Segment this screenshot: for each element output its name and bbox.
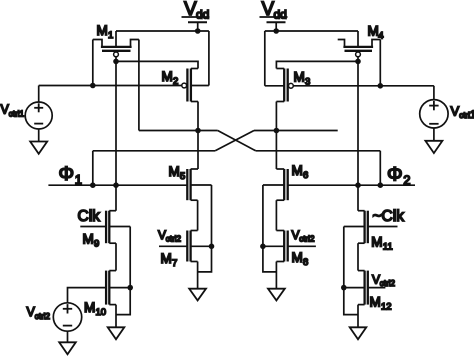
svg-text:10: 10 xyxy=(96,307,107,318)
wire Vctrl2 to M7 gate xyxy=(159,245,187,247)
transistor M10 xyxy=(84,271,130,318)
wire M8 source down xyxy=(275,262,277,289)
wire ~Clk to M11 gate xyxy=(368,226,398,228)
supply Vdd left xyxy=(182,0,210,31)
voltage source Vctrl1 left xyxy=(1,86,53,142)
wire M6/M8 body tie vertical xyxy=(263,185,277,272)
wire top-left coupling line xyxy=(139,130,218,132)
svg-text:M: M xyxy=(370,294,381,309)
junction dot M7 body xyxy=(209,244,215,250)
wire M7 source down xyxy=(197,262,199,289)
junction dot M2 drain on coupling line xyxy=(195,128,201,134)
ground under Vctrl1 right xyxy=(425,141,442,153)
svg-text:M: M xyxy=(292,250,303,265)
junction dot Phi1 coupling corner xyxy=(90,182,96,188)
svg-text:1: 1 xyxy=(108,30,113,41)
svg-text:M: M xyxy=(371,235,382,250)
svg-text:6: 6 xyxy=(303,170,308,181)
svg-text:M: M xyxy=(368,23,379,38)
wire M2 body to Vdd rail xyxy=(208,31,210,86)
ground under Vctrl2 left xyxy=(59,342,76,354)
svg-text:ctrl2: ctrl2 xyxy=(299,234,315,243)
svg-text:ctrl1: ctrl1 xyxy=(9,110,25,119)
svg-text:8: 8 xyxy=(303,257,308,268)
bubble on M2 gate xyxy=(182,83,187,88)
junction dot Phi2 to M11 branch xyxy=(355,182,361,188)
transistor M1 xyxy=(93,23,139,51)
svg-text:M: M xyxy=(292,163,303,178)
transistor M8 xyxy=(263,231,308,269)
transistor M7 xyxy=(161,231,212,269)
label Vctrl2 at M8 gate xyxy=(292,228,315,244)
junction dot M10 body xyxy=(127,285,133,291)
svg-text:9: 9 xyxy=(94,238,99,249)
transistor M2 xyxy=(162,69,209,102)
label Vctrl2 at M12 gate xyxy=(372,272,395,288)
svg-text:~Clk: ~Clk xyxy=(373,208,405,225)
wire M4 right terminal xyxy=(379,40,381,86)
wire Vctrl2 source to M10 gate xyxy=(68,288,107,303)
wire top-right coupling line xyxy=(254,130,338,132)
transistor M6 xyxy=(263,163,308,200)
wire M5/M7 body tie vertical xyxy=(198,185,212,272)
ground under M10 xyxy=(108,327,125,339)
junction dot Vdd rail left xyxy=(195,28,201,34)
wire M4 gate vertical down to Phi2 and M11 xyxy=(357,57,359,211)
wire M5 source to M7 drain xyxy=(197,200,199,230)
junction dot Phi2 coupling corner xyxy=(378,182,384,188)
wire Vdd rail right xyxy=(265,30,358,32)
label Vctrl2 at M7 gate xyxy=(158,228,181,244)
voltage source Vctrl1 right xyxy=(420,86,474,141)
ground under Vctrl1 left xyxy=(30,142,47,154)
wire M1 left terminal xyxy=(92,40,94,86)
wire Vctrl1 to M2 gate xyxy=(39,85,182,87)
svg-text:dd: dd xyxy=(274,8,287,22)
wire Vdd rail left xyxy=(116,30,209,32)
junction dot M12 body xyxy=(341,285,347,291)
transistor M12 xyxy=(344,271,392,313)
svg-text:ctrl2: ctrl2 xyxy=(166,234,182,243)
node Phi1 xyxy=(48,163,187,187)
svg-text:1: 1 xyxy=(470,109,474,121)
wire M3 body to Vdd rail xyxy=(264,31,266,86)
bubble on M1 gate xyxy=(114,52,119,57)
junction dot M4 source node xyxy=(378,83,384,89)
bubble on M3 gate xyxy=(289,83,294,88)
svg-text:dd: dd xyxy=(196,8,209,22)
wire bottom-left coupling line xyxy=(93,150,215,152)
svg-text:ctrl: ctrl xyxy=(459,111,470,120)
wire Clk to M9 gate xyxy=(80,226,106,228)
junction dot Vdd rail right xyxy=(273,28,279,34)
svg-text:Φ: Φ xyxy=(59,163,75,185)
wire coupling diagonal down-right xyxy=(218,131,256,151)
transistor M9 xyxy=(83,211,131,250)
node Phi2 xyxy=(288,163,415,187)
transistor M11 xyxy=(344,211,393,253)
wire M12 source down xyxy=(357,305,359,328)
wire M12 gate to Vctrl2 xyxy=(368,287,386,289)
supply Vdd right xyxy=(260,0,288,31)
svg-text:M: M xyxy=(294,70,305,85)
transistor M5 xyxy=(169,164,212,200)
svg-text:M: M xyxy=(97,23,108,38)
wire M11 source to M12 drain xyxy=(357,243,359,270)
ground under M12 xyxy=(350,327,367,339)
svg-text:M: M xyxy=(84,300,95,315)
svg-text:7: 7 xyxy=(172,258,177,269)
svg-text:M: M xyxy=(161,251,172,266)
svg-text:M: M xyxy=(162,69,173,84)
wire M3 gate to Vctrl1 right xyxy=(293,85,434,87)
junction dot M8 body xyxy=(260,244,266,250)
wire coupling diagonal up-right xyxy=(215,131,254,151)
voltage source Vctrl2 left xyxy=(27,303,82,343)
wire coupling corner left down to Phi1 xyxy=(92,151,94,185)
svg-text:12: 12 xyxy=(381,301,392,312)
wire M9/M10 body tie vertical xyxy=(116,227,130,315)
wire M6 source to M8 drain xyxy=(275,200,277,230)
svg-text:M: M xyxy=(169,164,180,179)
svg-text:M: M xyxy=(83,231,94,246)
wire M9 source to M10 drain xyxy=(115,243,117,270)
junction dot M1 gate node xyxy=(113,59,119,65)
wire coupling corner right down to Phi2 xyxy=(379,151,381,185)
junction dot Phi1 to M9 branch xyxy=(113,182,119,188)
transistor M3 xyxy=(265,69,310,102)
wire M4 gate to M3 source xyxy=(276,61,358,68)
svg-text:5: 5 xyxy=(180,171,185,182)
ground under M8 xyxy=(268,289,285,301)
wire M11/M12 body tie vertical xyxy=(344,227,358,315)
svg-text:ctrl2: ctrl2 xyxy=(380,279,396,288)
wire M8 gate to Vctrl2 xyxy=(288,245,316,247)
svg-text:Φ: Φ xyxy=(387,163,403,185)
svg-text:Clk: Clk xyxy=(78,208,101,225)
ground under M7 xyxy=(189,289,206,301)
svg-text:11: 11 xyxy=(383,242,393,253)
wire M1 gate vertical down to Phi1 and M9 xyxy=(115,57,117,211)
junction dot M3 drain on coupling line xyxy=(274,128,280,134)
svg-text:V: V xyxy=(451,104,460,119)
wire M2 drain to M5 drain xyxy=(197,102,199,170)
transistor M4 xyxy=(338,23,384,51)
junction dot M1 source node xyxy=(90,83,96,89)
wire M3 drain to M6 drain xyxy=(275,102,277,170)
wire M1 gate to M2 source xyxy=(116,61,198,68)
bubble on M4 gate xyxy=(356,52,361,57)
junction dot M4 gate node xyxy=(355,59,361,65)
wire M1 right terminal down to coupling xyxy=(138,40,140,131)
wire M10 source down xyxy=(115,305,117,328)
wire bottom-right coupling line xyxy=(256,150,381,152)
svg-text:ctrl2: ctrl2 xyxy=(35,312,51,321)
